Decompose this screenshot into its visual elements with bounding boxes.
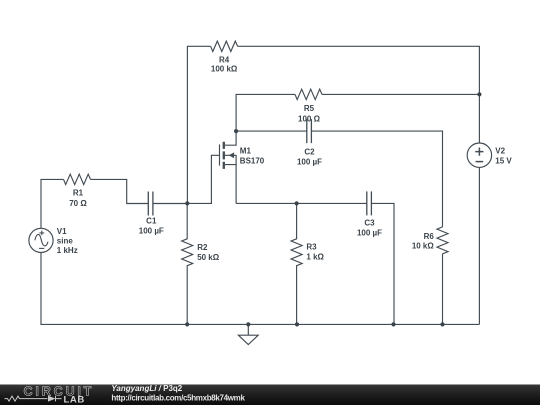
svg-text:BS170: BS170 xyxy=(240,157,265,166)
svg-text:http://circuitlab.com/c5hmxb8k: http://circuitlab.com/c5hmxb8k74wmk xyxy=(111,394,245,403)
transistor M1 channel bars xyxy=(223,142,225,169)
svg-text:R1: R1 xyxy=(73,189,84,198)
ground xyxy=(238,324,258,344)
svg-text:M1: M1 xyxy=(240,147,252,156)
wire C3 right down xyxy=(371,203,394,324)
svg-text:15 V: 15 V xyxy=(495,156,512,165)
svg-text:C3: C3 xyxy=(364,219,375,228)
node rail ground junction xyxy=(246,322,250,326)
svg-text:C1: C1 xyxy=(146,216,157,225)
transistor M1 gate lead wire xyxy=(187,155,219,203)
svg-text:R3: R3 xyxy=(306,243,317,252)
wire R5 to V2 column xyxy=(322,93,479,95)
wire R6 to ground rail xyxy=(442,254,444,325)
transistor M1 body arrow lead xyxy=(225,155,236,164)
wire C2 row right to R6 xyxy=(311,131,442,227)
svg-text:100 µF: 100 µF xyxy=(297,157,322,166)
svg-text:LAB: LAB xyxy=(64,395,85,405)
voltage source V2 xyxy=(467,143,491,167)
wire C2 row left xyxy=(236,130,307,132)
wire R5 row xyxy=(236,94,295,131)
wire V2 bottom xyxy=(478,167,480,324)
wire V1 bottom xyxy=(41,252,479,324)
svg-text:50 kΩ: 50 kΩ xyxy=(197,253,220,262)
svg-text:R4: R4 xyxy=(219,55,230,64)
svg-text:1 kΩ: 1 kΩ xyxy=(306,253,324,262)
transistor M1 gate bar xyxy=(219,144,221,165)
node drain junction xyxy=(234,129,238,133)
svg-text:100 kΩ: 100 kΩ xyxy=(211,65,238,74)
svg-text:V1: V1 xyxy=(57,227,67,236)
transistor M1 drain lead xyxy=(225,131,236,145)
svg-text:R2: R2 xyxy=(197,243,208,252)
capacitor C2 xyxy=(307,119,312,143)
voltage source V1 xyxy=(29,228,53,252)
svg-text:10 kΩ: 10 kΩ xyxy=(412,242,435,251)
wire R1 left from V1 xyxy=(41,179,64,228)
V1 plus xyxy=(39,231,44,236)
svg-text:100 µF: 100 µF xyxy=(139,226,164,235)
svg-text:C2: C2 xyxy=(304,147,315,156)
wire top rail right xyxy=(238,46,480,143)
wire source node row xyxy=(236,202,367,204)
resistor R4 xyxy=(211,41,238,51)
resistor R6 xyxy=(437,227,448,254)
node gate junction xyxy=(185,201,189,205)
logo glyph resistor-diode xyxy=(5,396,62,402)
V1 minus xyxy=(39,247,44,249)
svg-text:sine: sine xyxy=(57,236,74,245)
svg-text:100 µF: 100 µF xyxy=(357,228,382,237)
svg-text:100 Ω: 100 Ω xyxy=(298,114,321,123)
wire R1 to C1 xyxy=(91,179,149,203)
resistor R3 xyxy=(291,203,302,325)
node rail R6 junction xyxy=(440,322,444,326)
transistor M1 arrow xyxy=(229,152,234,158)
svg-text:R6: R6 xyxy=(424,232,435,241)
node source-R3 junction xyxy=(295,201,299,205)
resistor R5 xyxy=(295,89,322,99)
V1 sine wave xyxy=(35,234,48,245)
resistor R1 xyxy=(64,174,91,184)
node rail R2 junction xyxy=(185,322,189,326)
svg-text:1 kHz: 1 kHz xyxy=(57,246,78,255)
svg-text:YangyangLi / P3q2: YangyangLi / P3q2 xyxy=(111,384,182,393)
node rail R3 junction xyxy=(295,322,299,326)
capacitor C3 xyxy=(367,191,372,215)
svg-text:R5: R5 xyxy=(304,104,315,113)
svg-text:V2: V2 xyxy=(495,147,505,156)
wire top rail xyxy=(187,46,210,203)
resistor R2 xyxy=(182,203,193,325)
node rail C3 junction xyxy=(391,322,395,326)
node R5-V2 junction xyxy=(477,92,481,96)
svg-text:70 Ω: 70 Ω xyxy=(69,199,87,208)
capacitor C1 xyxy=(148,192,153,216)
transistor M1 source lead xyxy=(225,165,236,204)
wire C1 to gate node xyxy=(153,203,187,205)
